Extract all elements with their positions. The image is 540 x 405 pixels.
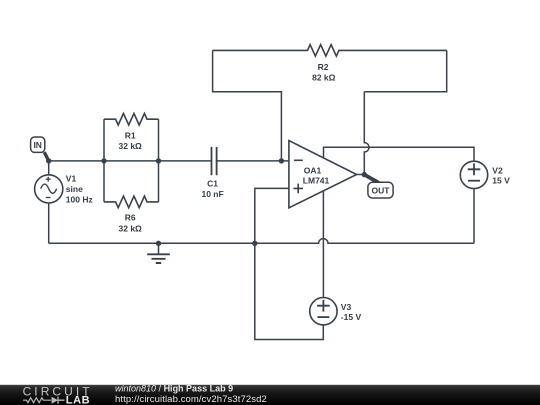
junction input node at V1 bbox=[46, 158, 51, 163]
voltage source V2 15 V bbox=[460, 161, 510, 188]
svg-text:15 V: 15 V bbox=[492, 175, 510, 185]
footer title text bbox=[115, 384, 267, 405]
wire V+ net (op-amp top stub to V2 plus) bbox=[324, 147, 475, 161]
voltage source V1 sine 100 Hz bbox=[35, 173, 93, 204]
svg-text:R6: R6 bbox=[125, 212, 136, 222]
footer bar bbox=[0, 385, 540, 405]
svg-text:OUT: OUT bbox=[372, 185, 391, 195]
wire output vertical with hop over V+ wire bbox=[364, 92, 369, 175]
svg-text:100 Hz: 100 Hz bbox=[66, 195, 93, 205]
svg-text:R1: R1 bbox=[125, 131, 136, 141]
svg-text:V1: V1 bbox=[66, 173, 77, 183]
node IN flag bbox=[31, 137, 49, 161]
svg-text:LM741: LM741 bbox=[303, 175, 330, 185]
svg-text:10 nF: 10 nF bbox=[201, 189, 223, 199]
wire C1 right plate to op-amp inverting input bbox=[217, 160, 289, 162]
wire main input net (V1/IN to C1 left, through R1R6 nodes) bbox=[49, 160, 212, 162]
footer CircuitLab logo bbox=[23, 385, 93, 405]
svg-text:R2: R2 bbox=[318, 62, 329, 72]
svg-text:C1: C1 bbox=[207, 179, 218, 189]
wire bottom ground rail with hop over V- column bbox=[49, 239, 474, 244]
wire V2 minus to ground rail bbox=[473, 189, 475, 244]
svg-text:V2: V2 bbox=[492, 165, 503, 175]
resistor R6 bbox=[104, 196, 159, 233]
wire feedback right (R2 right down) bbox=[364, 50, 446, 91]
svg-text:-15 V: -15 V bbox=[341, 312, 362, 322]
resistor R1 bbox=[104, 113, 159, 151]
svg-text:http://circuitlab.com/cv2h7s3t: http://circuitlab.com/cv2h7s3t72sd2 bbox=[115, 394, 267, 405]
node OUT flag bbox=[364, 175, 393, 198]
svg-text:winton810 / High Pass Lab 9: winton810 / High Pass Lab 9 bbox=[115, 384, 233, 394]
svg-text:V3: V3 bbox=[341, 302, 352, 312]
svg-text:32 kΩ: 32 kΩ bbox=[119, 141, 143, 151]
svg-text:OA1: OA1 bbox=[304, 165, 322, 175]
voltage source V3 -15 V bbox=[310, 298, 362, 325]
wire op-amp apex to output node bbox=[357, 174, 365, 176]
junction rail to non-inverting net bbox=[252, 241, 257, 246]
resistor R2 bbox=[213, 45, 447, 83]
ground bbox=[147, 243, 170, 263]
svg-text:sine: sine bbox=[66, 184, 83, 194]
junction ground tap bbox=[156, 241, 161, 246]
op-amp OA1 LM741 bbox=[289, 141, 357, 208]
capacitor C1 bbox=[201, 147, 223, 199]
svg-text:32 kΩ: 32 kΩ bbox=[119, 223, 143, 233]
wire V1 bottom to ground rail bbox=[48, 203, 50, 243]
wire feedback left (node A down from R2 left) bbox=[213, 50, 282, 160]
junction output node bbox=[362, 172, 367, 177]
svg-text:LAB: LAB bbox=[66, 394, 90, 405]
junction R1R6 left node bbox=[101, 158, 106, 163]
svg-text:IN: IN bbox=[33, 140, 42, 150]
wire R1R6 parallel right vertical bbox=[158, 119, 160, 202]
svg-text:82 kΩ: 82 kΩ bbox=[312, 73, 336, 83]
wire non-inverting input net (to rail junction and V3 minus) bbox=[255, 188, 323, 339]
wire V1 top stub bbox=[48, 161, 50, 175]
junction inverting input node bbox=[279, 158, 284, 163]
wire V- column (op-amp bottom stub to V3 plus) bbox=[322, 191, 324, 298]
wire R1R6 parallel left vertical bbox=[103, 119, 105, 202]
junction R1R6 right node bbox=[156, 158, 161, 163]
